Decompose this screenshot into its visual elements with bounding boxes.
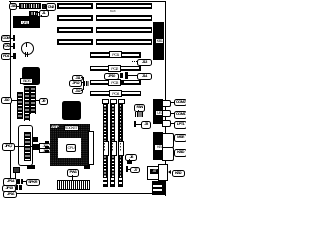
wire from box I down <box>15 172 16 179</box>
wire <box>14 146 33 147</box>
callout big tab 1 <box>174 134 187 142</box>
bottom-left callout row1 <box>3 178 17 185</box>
CPU socket ZIF body <box>50 124 90 166</box>
leader 1 <box>170 102 175 103</box>
between-slot callout cluster: callout <box>104 73 119 80</box>
DIMM bottom cells 1 <box>103 178 106 180</box>
header tick <box>13 53 16 59</box>
DIMM top cap 2 <box>110 99 117 104</box>
ticks row1 <box>17 179 19 184</box>
BIOS chip U7 <box>22 67 40 85</box>
chipset U2 <box>62 101 81 120</box>
ZIF lever strip <box>88 131 94 165</box>
CPU label <box>66 144 76 152</box>
leader <box>72 175 73 180</box>
keyboard connector block (top right) <box>153 22 164 60</box>
port tab 3 <box>162 120 171 127</box>
callout C (top row right) <box>46 3 56 11</box>
battery BT1 <box>21 42 34 55</box>
DIP ladder bar 1 <box>17 92 23 120</box>
board top edge <box>9 1 166 2</box>
jumper block 1 <box>33 137 38 142</box>
tick block <box>127 161 131 164</box>
small box I <box>13 167 20 174</box>
wire <box>10 38 13 39</box>
socket-left nub 3 <box>45 150 49 152</box>
AMP text on socket <box>51 125 65 129</box>
PCI slot 3 <box>90 80 141 86</box>
DIMM pin stripes 3 <box>120 102 122 185</box>
ISA slot 4 <box>57 39 93 45</box>
arrow tag 1 <box>39 143 51 149</box>
small box beside DIN <box>158 164 168 180</box>
port tab big 1 <box>162 133 174 148</box>
ladder strip inside H <box>24 132 31 161</box>
label PCI4 <box>109 90 122 97</box>
ISA slot 2 <box>57 15 93 21</box>
jumper square right of PCI3 label <box>121 80 124 84</box>
DIMM socket 2 <box>110 101 115 187</box>
wire from D down <box>41 15 42 17</box>
callout port 1 <box>174 99 187 107</box>
battery polarity mark <box>26 43 27 47</box>
label on E <box>20 20 31 26</box>
wire to right callout <box>23 181 26 182</box>
callout CPU jumpers <box>2 143 16 150</box>
callout J16 (top-left printer port label) <box>9 3 18 10</box>
socket bottom-right nub <box>84 165 90 168</box>
leader 2 <box>170 113 175 114</box>
header tick <box>13 35 15 40</box>
right I/O block 1 <box>153 99 163 125</box>
arrowhead <box>168 170 171 174</box>
black label in DIN <box>150 169 158 174</box>
PCI slot 1 <box>90 52 141 58</box>
callout mid right <box>141 121 151 129</box>
tick <box>126 166 128 171</box>
wire <box>10 56 14 57</box>
bar <box>125 72 127 79</box>
power connector PS1 <box>57 180 90 190</box>
ticks row2 <box>16 185 18 190</box>
DIMM pin stripes 1 <box>104 102 106 185</box>
socket-left nub 1 <box>45 141 49 144</box>
wire <box>36 12 39 13</box>
wire <box>44 6 46 7</box>
leader 3 <box>170 123 175 124</box>
bottom-left callout row2 <box>2 185 16 192</box>
callout COM1 <box>3 43 11 50</box>
callout row1 right <box>26 179 40 186</box>
label box on socket top <box>64 125 80 131</box>
tick mid right <box>134 121 136 127</box>
DIMM socket 1 <box>103 101 108 187</box>
connector J16 header bar <box>19 3 41 9</box>
callout left of ladders <box>1 97 11 104</box>
label on keyboard block <box>155 38 164 45</box>
tick <box>120 73 123 78</box>
wire <box>16 6 19 7</box>
DIMM label 2 <box>111 141 117 156</box>
callout PCI row 2-3 <box>137 73 153 80</box>
ISA slot 1 <box>57 3 93 9</box>
DIP ladder bar 3 <box>30 86 36 114</box>
callout D row2 <box>39 10 49 17</box>
label PCI2 <box>108 65 121 72</box>
fan header striped <box>135 112 143 116</box>
callout below socket <box>67 169 79 176</box>
DIMM top cap 3 <box>118 99 125 104</box>
DIMM pin stripes 2 <box>112 102 114 185</box>
bottom-left callout row3 <box>3 191 17 198</box>
ISA slot 3 <box>57 27 93 33</box>
leader <box>173 137 175 138</box>
board left edge <box>10 1 11 193</box>
converging leader wires <box>81 77 83 78</box>
DIMM bottom cells 3 <box>119 178 122 180</box>
connector row2 header <box>29 11 38 17</box>
callout DIMM fan header <box>134 104 144 112</box>
port tab 2 <box>162 110 171 117</box>
DIMM bottom cells 2 <box>111 178 114 180</box>
voltage regulator block E <box>13 16 40 28</box>
battery legs <box>25 52 26 57</box>
wire <box>11 100 17 101</box>
leader <box>173 152 175 153</box>
label PCI3 <box>108 79 121 86</box>
port tab 1 <box>162 100 171 107</box>
DIMM socket 3 <box>118 101 123 187</box>
wire <box>136 124 141 125</box>
leader down <box>138 110 139 113</box>
label on block 1 <box>155 110 163 116</box>
callout COM2 <box>1 35 10 42</box>
stacked callout 2 <box>69 80 82 87</box>
dotted leader <box>132 61 137 62</box>
wire <box>128 75 137 76</box>
callout PCI row 1-2 <box>137 59 153 66</box>
callout FDD <box>1 53 10 60</box>
callout right of ladders <box>39 98 49 105</box>
callout port 2 <box>174 111 187 119</box>
board right edge <box>165 1 166 196</box>
black blob bottom of H <box>27 165 35 169</box>
right I/O block 2 <box>153 132 163 160</box>
ISA tiny text <box>110 10 120 13</box>
wire <box>10 46 14 47</box>
stacked callout 1 left of PCI slots <box>72 75 83 82</box>
DIN connector outline <box>147 166 163 180</box>
DIMM top cap 1 <box>102 99 109 104</box>
PCI slot 2 <box>90 66 141 72</box>
striped jumper target <box>84 81 90 86</box>
white stripe 1 <box>153 185 162 187</box>
label PCI1 <box>109 51 122 58</box>
label on block 2 <box>154 144 163 150</box>
jumper block 2 <box>33 144 39 151</box>
wire <box>34 100 39 101</box>
callout port 3 <box>174 121 187 129</box>
socket-left nub 2 <box>45 146 49 149</box>
stacked callout 3 <box>72 88 83 95</box>
DIMM label 1 <box>103 141 109 156</box>
DIMM label 3 <box>118 141 124 156</box>
PCI slot 4 <box>90 91 142 97</box>
label on U7 <box>20 78 33 84</box>
white stripe 2 <box>153 189 162 192</box>
tall connector housing H <box>18 125 33 166</box>
pointer down <box>129 159 130 161</box>
mini connector end <box>42 4 46 9</box>
bottom right stacked connector <box>152 181 166 195</box>
arrow tag 2 <box>39 148 51 154</box>
callout DIMM bottom <box>125 154 137 161</box>
callout big tab 2 <box>174 149 187 157</box>
CPU socket inner cavity <box>58 138 81 159</box>
DIP ladder bar 2 <box>24 86 30 121</box>
callout DIN <box>172 170 185 177</box>
callout <box>130 167 140 174</box>
board bottom edge <box>10 193 166 194</box>
port tab big 2 <box>162 147 174 161</box>
wire <box>128 169 130 170</box>
header tick <box>13 43 15 49</box>
